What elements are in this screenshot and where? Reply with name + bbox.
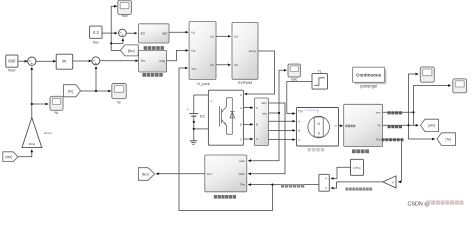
svg-text:A: A [256,106,258,110]
wire 0.3 to sum3 [102,32,117,34]
ground symbol [190,141,197,145]
torque regulator subsystem [139,51,167,77]
PI controller block [56,54,72,69]
scope2 (right) [453,79,467,93]
wire sum3 to flux regulator [126,32,137,34]
svg-text:wm: wm [376,111,381,115]
svg-text:The: The [240,183,246,187]
constant flux reference 0.3 [90,26,102,44]
svg-text:PI: PI [62,59,66,64]
svg-text:Ua: Ua [210,34,214,38]
Goto tag [wm] [421,119,439,131]
junction [110,42,112,44]
label 定子磁链计算 [214,195,236,199]
svg-text:pluse: pluse [249,49,257,53]
wire sum rect output to flux calculator The and big feedback loop [248,184,319,186]
svg-text:Ud: Ud [191,30,195,34]
scope flux (top) [118,0,132,18]
constant 0.5*pi [351,159,364,175]
wire TL to motor Tm [287,82,312,114]
svg-text:powergui: powergui [360,83,377,88]
wire sum2 to torque regulator [100,60,138,62]
wire gain to sum rect [331,182,383,188]
wire The out down to gain [383,139,402,182]
label 定子磁链角度 [281,184,304,187]
DC source [187,95,208,141]
svg-text:The: The [191,67,197,71]
PMSM motor block [297,108,339,147]
svg-text:[wm]: [wm] [5,155,12,159]
svg-text:Ub: Ub [210,63,214,67]
wire sum1 to PI [36,60,56,62]
wire Iabc to flux calculator with scope tap [248,113,279,161]
svg-text:[Te]: [Te] [68,89,74,93]
svg-text:Continuous: Continuous [356,72,381,77]
I1_park subsystem (inverse park transform) [189,22,216,86]
From tag [flux] [120,45,138,56]
scope Nr [50,96,63,115]
sum block (rectangular, flipped) [319,174,329,191]
svg-text:A: A [298,119,300,123]
svg-text:TL: TL [318,69,322,73]
wire 0.5*pi to sum rect [331,167,351,178]
scope1 (top right) [420,67,434,82]
svg-text:[flux]: [flux] [128,49,135,53]
label 输出模块 [352,149,369,153]
wire gain to sum1 with scope Nr tap [31,67,33,117]
gain triangle pole pairs (points left) [383,176,396,188]
svg-text:wm-nr: wm-nr [44,131,52,135]
wire usd to I1_park Ud [169,31,188,33]
svg-text:Iabc: Iabc [262,111,268,115]
stator flux calculator subsystem (flipped) [205,155,247,192]
svg-text:I1_park: I1_park [197,82,210,86]
svg-text:iabc: iabc [291,78,298,82]
svg-text:600: 600 [8,58,16,63]
wires inverter ABC to measurement [243,107,253,109]
svg-text:+: + [187,108,189,112]
wire Te out to goto wm tag, scope1, goto Te tag [383,124,419,126]
IGBT symbol inside inverter [219,98,232,135]
svg-text:Ua: Ua [234,34,238,38]
watermark [408,200,464,207]
wire pluse to inverter gate g [244,51,274,94]
wire motor m to output module [339,125,343,127]
svg-text:flux: flux [122,14,128,18]
flux regulator subsystem [139,24,170,50]
sum junction 1 (speed error) [28,57,36,65]
SVPWM subsystem [232,23,258,86]
svg-text:C: C [256,137,258,141]
sum junction 3 (flux error) [119,29,127,37]
svg-text:[flux]: [flux] [142,172,149,176]
svg-text:B: B [298,129,300,133]
svg-text:Nref: Nref [8,67,16,72]
svg-text:[Te]: [Te] [446,137,451,141]
constant Nref 600 [6,55,18,72]
svg-text:B: B [240,123,242,127]
svg-text:+: + [210,100,212,104]
svg-text:[wm]: [wm] [428,124,435,128]
diode inside inverter [230,98,234,135]
svg-text:Uq: Uq [191,49,195,53]
svg-text:Tm: Tm [298,110,303,114]
svg-text:B: B [256,123,258,127]
svg-text:0.5*pi: 0.5*pi [353,166,361,170]
svg-text:Vabc: Vabc [238,172,245,176]
svg-text:CSDN @: CSDN @ [408,202,430,208]
svg-text:0.3: 0.3 [93,30,99,35]
wires measurement abc to motor ABC [269,120,296,122]
svg-text:The: The [375,138,381,142]
svg-text:Iabc: Iabc [239,159,245,163]
svg-text:DC: DC [200,114,206,118]
svg-text:usd: usd [162,31,167,35]
wire [flux] to flux scope and sum3 [111,6,120,50]
svg-text:Ub: Ub [234,63,238,67]
label 电角度rad极对数 [346,188,373,191]
wire usq to I1_park Uq [167,51,189,61]
wire [wm] to gain 30/pi [18,150,32,157]
svg-text:C: C [240,137,242,141]
wire [Te] to Te scope and sum2 [81,90,112,92]
inverter bridge block [208,90,243,145]
wire flux* to Goto [flux] [156,173,205,175]
svg-text:A: A [240,106,242,110]
scope Te [112,84,126,105]
svg-text:flux*: flux* [207,172,214,176]
From tag [Te] [64,85,81,97]
sum junction 2 (torque error) [92,57,100,65]
wire Nref to sum1 [18,60,28,62]
Goto tag [flux] [138,168,154,181]
svg-text:Te: Te [377,124,381,128]
label 定子转速 on wm wire [388,111,403,114]
svg-text:30/pi: 30/pi [29,142,36,146]
Goto tag [Te] [437,133,456,146]
label 电机模块 [308,148,325,152]
wires I1_park to SVPWM [216,35,231,37]
svg-text:C: C [298,138,300,142]
wire Vabc to flux calculator [248,103,285,174]
powergui block [353,67,387,88]
output module subsystem [344,104,383,146]
label 转子机械角度 on The wire [382,138,404,141]
gain 30/pi (rad/s to rpm) [22,118,52,148]
svg-text:Te: Te [117,100,121,104]
From tag [wm] [3,152,18,162]
svg-text:usq: usq [159,59,164,63]
label 电磁转矩 on Te wire [388,125,403,128]
svg-text:flux: flux [93,41,99,45]
svg-text:SVPWM: SVPWM [238,81,252,85]
svg-text:-: - [211,135,212,139]
svg-text:Vabc: Vabc [261,101,267,105]
wire wm out to scope2 and down [383,111,414,113]
three-phase V-I measurement block [254,98,268,146]
wire PI to sum2 [73,60,92,62]
step load torque TL [312,69,328,89]
scope iabc [288,64,300,82]
